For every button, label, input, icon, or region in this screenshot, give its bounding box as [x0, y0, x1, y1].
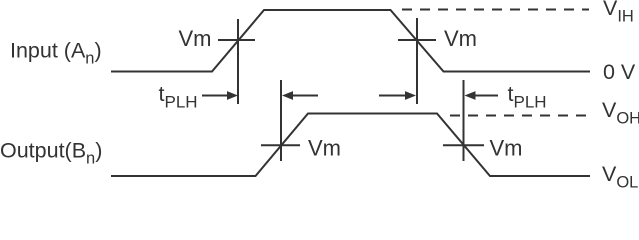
arrow tPLH left pointing left: [282, 91, 318, 100]
Vm tick output falling: [443, 144, 484, 146]
input waveform: [111, 10, 590, 72]
measurement line output rising edge: [280, 80, 282, 161]
svg-text:0 V: 0 V: [603, 60, 636, 84]
dashed VIH level line: [402, 9, 589, 11]
svg-text:tPLH: tPLH: [508, 82, 547, 112]
svg-text:Output(Bn): Output(Bn): [0, 139, 102, 168]
svg-text:Vm: Vm: [179, 26, 212, 51]
svg-text:VOH: VOH: [602, 98, 639, 128]
measurement line output falling edge: [463, 80, 465, 161]
dashed VOH level line: [450, 115, 588, 117]
svg-text:Input (An): Input (An): [10, 39, 102, 68]
arrow tPLH right pointing left: [465, 91, 499, 100]
measurement line input falling edge: [416, 18, 418, 104]
svg-text:Vm: Vm: [308, 135, 341, 160]
output waveform: [111, 114, 590, 177]
Vm tick input rising: [218, 39, 255, 41]
svg-text:tPLH: tPLH: [159, 82, 198, 112]
arrow tPLH right pointing right: [379, 91, 416, 100]
svg-text:Vm: Vm: [490, 135, 523, 160]
arrow tPLH left pointing right: [202, 91, 238, 100]
Vm tick input falling: [398, 39, 436, 41]
measurement line input rising edge: [237, 19, 239, 104]
svg-text:Vm: Vm: [444, 26, 477, 51]
svg-text:VIH: VIH: [603, 0, 634, 26]
Vm tick output rising: [261, 144, 300, 146]
svg-text:VOL: VOL: [602, 162, 638, 188]
